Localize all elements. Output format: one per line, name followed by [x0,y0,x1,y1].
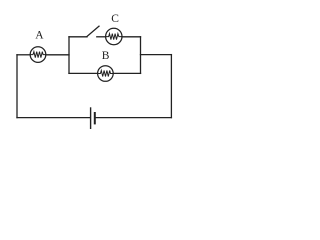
svg-text:C: C [111,13,119,25]
lamp C [106,28,122,44]
switch S lever (open) [87,26,99,36]
wire bottom left segment [17,117,90,119]
svg-text:A: A [35,30,44,42]
parallel box left vertical [68,37,70,74]
wire bottom branch left segment [69,72,98,74]
wire box to right corner [141,54,172,56]
lamp A [30,47,46,63]
wire right vertical [170,55,172,118]
svg-text:B: B [102,50,110,62]
wire lamp A to parallel-box left [46,54,69,56]
wire left horizontal from left corner to lamp A [17,54,30,56]
wire lamp C to parallel-box right [122,36,141,38]
wire switch to lamp C [97,36,106,38]
wire left vertical [16,55,18,118]
wire lamp B to parallel-box right [113,72,140,74]
battery positive plate (long) [90,108,92,128]
wire top branch left segment [69,36,87,38]
lamp B [98,66,114,82]
parallel box right vertical [140,37,142,74]
wire bottom right segment [96,117,171,119]
battery negative plate (short) [94,113,96,123]
